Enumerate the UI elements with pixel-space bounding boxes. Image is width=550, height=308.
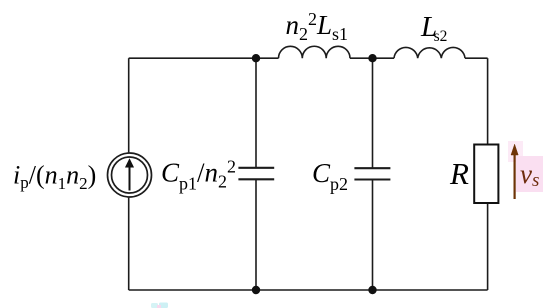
inductor Ls2 [394, 47, 465, 58]
bottom node under C1 junction dot [252, 286, 260, 294]
current source arrow [125, 159, 133, 191]
wire left rail upper: corner down to source [128, 58, 130, 152]
node B junction dot [368, 54, 376, 62]
resistor R body [474, 145, 498, 204]
wire: capacitor C1 to bottom rail [255, 179, 257, 290]
node A junction dot [252, 54, 260, 62]
wire: capacitor C2 to bottom rail [372, 180, 374, 291]
wire: node A down to capacitor C1 [255, 58, 257, 168]
wire: inductor L2 to top-right corner [465, 57, 488, 59]
highlight behind vs arrowhead [508, 141, 523, 162]
wire right rail lower: resistor to bottom rail [487, 203, 489, 290]
wire right rail upper: corner down to resistor [487, 58, 489, 144]
current source circles [108, 153, 152, 197]
inductor n2^2 Ls1 [279, 46, 351, 58]
wire: inductor L1 to node B [350, 57, 373, 59]
highlight behind vs label [516, 156, 543, 192]
capacitor C2 plates [354, 168, 390, 179]
capacitor C1 plates [238, 168, 274, 180]
watermark smudge bottom-left [151, 303, 168, 308]
bottom node under C2 junction dot [368, 286, 376, 294]
wire top rail left: corner to node A [129, 57, 256, 59]
wire bottom rail [129, 289, 488, 291]
wire: node B down to capacitor C2 [372, 58, 374, 168]
vs arrow [511, 144, 518, 199]
wire top rail: node A to inductor L1 [256, 57, 279, 59]
wire: node B to inductor L2 [373, 57, 395, 59]
svg-text:R: R [449, 156, 469, 191]
wire left rail lower: source to bottom rail [128, 198, 130, 290]
